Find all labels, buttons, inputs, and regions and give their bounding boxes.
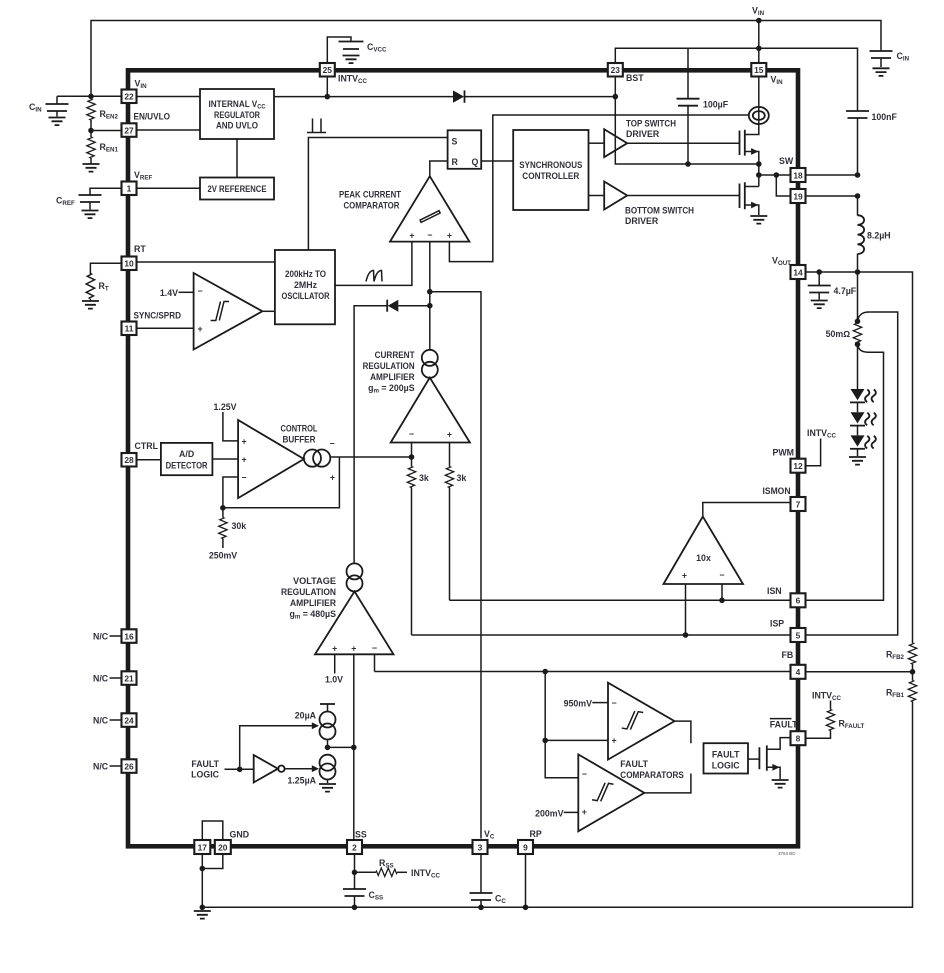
svg-text:OSCILLATOR: OSCILLATOR <box>282 291 331 301</box>
sense loop <box>749 107 769 124</box>
node 100uF rail <box>685 161 691 167</box>
svg-text:SS: SS <box>355 830 367 840</box>
resistor REN1 <box>90 131 92 138</box>
resistor RFB2 <box>908 643 916 664</box>
svg-text:12: 12 <box>793 461 803 471</box>
svg-text:−: − <box>409 429 414 439</box>
svg-text:1.25µA: 1.25µA <box>287 776 316 786</box>
current source VRA output <box>347 563 363 579</box>
current source 1.25uA <box>320 755 336 771</box>
capacitor 100uF <box>687 48 689 98</box>
inductor 8.2uH <box>857 196 859 216</box>
svg-text:200mV: 200mV <box>535 809 563 819</box>
ground LED string <box>849 457 866 465</box>
svg-text:+: + <box>242 436 247 446</box>
pin 5 ISP <box>791 628 806 642</box>
pin 28 CTRL <box>122 453 137 467</box>
node sense top <box>855 319 861 325</box>
svg-text:+: + <box>582 807 587 817</box>
block A/D detector <box>161 443 213 475</box>
node SW rail <box>756 161 762 167</box>
svg-text:N/C: N/C <box>93 674 109 684</box>
svg-text:−: − <box>582 769 587 779</box>
wire VRA plus / SS <box>353 654 355 840</box>
svg-text:6: 6 <box>796 596 801 606</box>
wire 20uA to SS <box>328 740 354 748</box>
svg-text:8.2µH: 8.2µH <box>867 231 891 241</box>
svg-text:1.25V: 1.25V <box>214 402 237 412</box>
svg-text:100nF: 100nF <box>872 112 898 122</box>
svg-text:ISMON: ISMON <box>763 486 791 496</box>
svg-text:+: + <box>242 454 247 464</box>
pin 15 VIN <box>751 63 766 77</box>
svg-text:24: 24 <box>124 716 134 726</box>
node REN1 top <box>88 128 94 134</box>
svg-text:ISP: ISP <box>770 619 784 629</box>
wire ISMON to 10x <box>703 503 791 517</box>
svg-text:CONTROLLER: CONTROLLER <box>522 171 580 181</box>
node diode branch <box>427 303 433 309</box>
pin 14 VOUT <box>791 265 806 279</box>
pin 21 N/C <box>122 671 137 685</box>
wire controller to top driver <box>589 142 605 144</box>
svg-text:AND UVLO: AND UVLO <box>216 121 258 131</box>
ground CREF <box>82 211 99 219</box>
svg-text:10x: 10x <box>696 553 711 563</box>
pin 10 RT <box>122 257 137 271</box>
svg-text:SW: SW <box>779 156 794 166</box>
svg-text:TOP SWITCH: TOP SWITCH <box>626 119 676 129</box>
svg-text:10: 10 <box>124 259 134 269</box>
svg-text:CTRL: CTRL <box>135 441 159 451</box>
amplifier 10x <box>664 517 744 585</box>
wire comparator to oscillator <box>262 310 275 312</box>
comparator peak current <box>390 176 469 241</box>
svg-text:2: 2 <box>352 842 357 852</box>
svg-text:AMPLIFIER: AMPLIFIER <box>370 372 415 382</box>
LED D3 <box>850 435 865 448</box>
svg-text:−: − <box>330 438 335 448</box>
svg-text:FAULT: FAULT <box>620 759 648 769</box>
ground CIN left <box>49 118 66 126</box>
pin 4 FB <box>791 665 806 679</box>
pin 9 RP <box>518 840 533 854</box>
wire VRA 1.0V input <box>334 654 336 673</box>
diode D-clamp <box>398 305 430 307</box>
svg-text:2V REFERENCE: 2V REFERENCE <box>208 184 267 194</box>
capacitor CSS <box>343 889 366 896</box>
wire sense to LEDs <box>857 344 859 389</box>
svg-text:DRIVER: DRIVER <box>626 129 660 139</box>
transistor M1 top switch <box>740 130 745 156</box>
pin 19 SW <box>791 189 806 203</box>
block internal VCC regulator U-REG <box>200 89 274 139</box>
node BST rail / VIN <box>756 46 762 52</box>
svg-text:REGULATION: REGULATION <box>281 587 336 597</box>
resistor 3k left <box>411 457 413 467</box>
svg-text:16: 16 <box>124 632 134 642</box>
svg-text:7: 7 <box>796 499 801 509</box>
pulse symbol <box>307 119 326 133</box>
svg-text:R: R <box>452 157 459 167</box>
comparator 950mV <box>608 683 675 760</box>
svg-text:EN/UVLO: EN/UVLO <box>134 112 171 122</box>
wire BST upper rail <box>615 48 857 111</box>
pin 26 N/C <box>122 759 137 773</box>
svg-text:11: 11 <box>125 324 134 334</box>
wire FB to fault comparators <box>542 669 548 675</box>
pin 24 N/C <box>122 713 137 727</box>
wire FB external <box>806 671 913 673</box>
block fault logic <box>704 743 749 773</box>
svg-text:18: 18 <box>793 170 803 180</box>
wire SW node <box>758 164 760 187</box>
ground bottom switch source <box>750 216 767 224</box>
wire pin22 to regulator <box>137 96 201 98</box>
svg-text:9: 9 <box>523 842 528 852</box>
pin 3 VC <box>473 840 488 854</box>
svg-text:28: 28 <box>124 455 134 465</box>
svg-text:250mV: 250mV <box>209 551 237 561</box>
svg-text:15: 15 <box>754 65 764 75</box>
wire 10x minus to ISN <box>721 584 723 600</box>
wire bottom driver to gate <box>627 195 739 197</box>
svg-text:−: − <box>242 472 247 482</box>
svg-text:REGULATION: REGULATION <box>363 361 415 371</box>
svg-text:950mV: 950mV <box>564 699 592 709</box>
svg-text:19: 19 <box>793 191 803 201</box>
svg-text:14: 14 <box>793 267 803 277</box>
svg-text:FAULT: FAULT <box>770 719 798 729</box>
svg-text:4.7µF: 4.7µF <box>834 286 857 296</box>
svg-text:+: + <box>330 473 335 483</box>
wire GND loop <box>202 821 223 840</box>
wire fault logic to inverter <box>225 768 254 770</box>
amplifier control buffer <box>238 420 304 498</box>
svg-text:2MHz: 2MHz <box>294 280 318 290</box>
wire buffer output <box>330 456 411 458</box>
svg-text:LOGIC: LOGIC <box>712 761 741 771</box>
pin 23 BST <box>608 63 623 77</box>
wire pin28 to A/D <box>137 459 161 461</box>
svg-text:ISN: ISN <box>767 586 782 596</box>
pin 27 EN/UVLO <box>122 123 137 137</box>
svg-text:+: + <box>332 644 337 654</box>
wire buffer feedback loop <box>223 457 340 508</box>
ground fault transistor <box>772 780 789 788</box>
wire SW pins to inductor <box>806 175 858 196</box>
wire VC rail <box>430 292 481 839</box>
ground GND pin <box>194 911 211 919</box>
inverter U-INV <box>254 755 278 782</box>
svg-text:RT: RT <box>134 244 146 254</box>
svg-text:3k: 3k <box>419 473 429 483</box>
svg-text:GND: GND <box>230 830 250 840</box>
svg-text:+: + <box>409 231 414 241</box>
svg-text:N/C: N/C <box>93 632 109 642</box>
capacitor CREF <box>90 188 122 194</box>
svg-text:−: − <box>612 698 617 708</box>
svg-text:27: 27 <box>124 126 134 136</box>
resistor 30k <box>222 508 224 518</box>
pin 18 SW <box>791 168 806 182</box>
svg-text:+: + <box>447 429 452 439</box>
svg-text:+: + <box>682 571 687 581</box>
svg-text:−: − <box>719 570 724 580</box>
svg-text:30k: 30k <box>232 521 247 531</box>
svg-text:Q: Q <box>472 157 479 167</box>
svg-text:FAULT: FAULT <box>191 759 219 769</box>
wire controller to bottom driver <box>589 195 605 197</box>
wire CRA plus input <box>449 443 451 467</box>
wire inductor to sense resistor <box>857 272 859 321</box>
svg-text:RP: RP <box>530 829 542 839</box>
block oscillator <box>275 250 335 324</box>
top switch driver <box>604 129 627 157</box>
svg-text:1: 1 <box>127 184 132 194</box>
svg-text:−: − <box>372 643 377 653</box>
svg-text:+: + <box>198 324 203 334</box>
node SW pin18 <box>756 172 762 178</box>
wire VRA minus to FB <box>374 654 376 671</box>
wire 10x plus to ISP <box>685 584 687 635</box>
svg-text:VOLTAGE: VOLTAGE <box>293 576 336 586</box>
svg-text:1.4V: 1.4V <box>160 288 178 298</box>
wire ISN sense <box>806 344 884 600</box>
node INTVCC/diode <box>325 94 331 100</box>
wire ISN rail <box>450 599 791 601</box>
wire GND down <box>201 854 203 906</box>
comparator 200mV <box>578 754 644 831</box>
ground 4.7uF <box>811 301 828 309</box>
wire pin1 to 2V reference <box>137 187 201 189</box>
wire ISP rail <box>412 634 791 636</box>
resistor REN2 <box>90 96 92 99</box>
svg-text:+: + <box>612 736 617 746</box>
wire fault logic to gate <box>748 758 759 760</box>
capacitor CIN (top right) <box>870 51 893 58</box>
wire inverter to 1.25uA <box>285 768 312 770</box>
svg-text:3: 3 <box>478 842 483 852</box>
wire oscillator ramp to peak comparator <box>335 242 412 286</box>
capacitor 4.7uF <box>818 272 820 285</box>
svg-text:COMPARATOR: COMPARATOR <box>344 201 401 211</box>
svg-text:S: S <box>452 137 458 147</box>
ground RT <box>82 301 99 309</box>
pin 6 ISN <box>791 593 806 607</box>
wire CRA minus input <box>411 443 413 458</box>
amplifier current regulation <box>391 378 470 443</box>
svg-text:CURRENT: CURRENT <box>375 350 416 360</box>
svg-text:SYNC/SPRD: SYNC/SPRD <box>134 311 182 321</box>
svg-text:21: 21 <box>124 674 134 684</box>
wire SS external <box>354 854 356 889</box>
wire 200mV output <box>644 774 691 793</box>
resistor RFB1 <box>912 672 914 681</box>
current source CRA output <box>422 350 438 366</box>
svg-text:200kHz TO: 200kHz TO <box>285 269 326 279</box>
wire ISP sense <box>806 312 898 635</box>
LED D2 <box>850 412 865 425</box>
pin 2 SS <box>347 840 362 854</box>
svg-text:22: 22 <box>124 92 134 102</box>
wire VC external <box>480 854 482 893</box>
svg-text:+: + <box>447 231 452 241</box>
ground REN1 <box>83 164 100 172</box>
current source 20uA <box>320 703 335 705</box>
wire latch Q to controller <box>481 160 513 162</box>
svg-text:23: 23 <box>611 65 621 75</box>
svg-text:8: 8 <box>796 734 801 744</box>
svg-text:BUFFER: BUFFER <box>283 435 317 445</box>
wire PWM INTVCC <box>806 439 821 466</box>
wire A/D to buffer <box>212 458 238 460</box>
resistor RT <box>90 263 121 274</box>
pin 17 GND <box>194 840 210 854</box>
svg-text:DETECTOR: DETECTOR <box>166 461 209 471</box>
svg-text:50mΩ: 50mΩ <box>826 329 851 339</box>
svg-text:FAULT: FAULT <box>712 750 740 760</box>
svg-text:4: 4 <box>796 667 801 677</box>
buffer output mirror <box>304 450 321 467</box>
svg-text:SYNCHRONOUS: SYNCHRONOUS <box>519 160 582 170</box>
capacitor 100nF <box>846 111 869 118</box>
wire VIN vertical to pin 15 <box>758 21 760 64</box>
pin 20 GND <box>215 840 231 854</box>
capacitor CC <box>470 893 493 900</box>
wire regulator to 2V reference <box>236 139 238 178</box>
wire to 20uA enable <box>240 726 312 770</box>
capacitor CIN (left) <box>56 96 58 103</box>
svg-text:+: + <box>351 644 356 654</box>
pin 1 VREF <box>122 182 137 196</box>
wire oscillator to latch S input <box>308 138 447 251</box>
pin 7 ISMON <box>791 497 806 511</box>
node REN2 top <box>88 94 94 100</box>
wire top driver to gate <box>627 142 739 144</box>
wire RP external <box>525 854 527 907</box>
svg-text:20µA: 20µA <box>295 711 317 721</box>
wire VIN pin to drain <box>758 77 760 125</box>
LED D1 <box>850 389 865 402</box>
wire CIN to pin 22 <box>57 95 122 97</box>
pin 22 VIN <box>122 90 137 104</box>
wire pin11 to comparator <box>137 327 194 329</box>
svg-text:FB: FB <box>782 650 794 660</box>
ground 1.25uA source <box>319 784 336 792</box>
svg-text:REGULATOR: REGULATOR <box>214 110 261 120</box>
latch U-SR <box>448 130 482 169</box>
svg-text:LOGIC: LOGIC <box>191 769 220 779</box>
block 2V reference <box>200 178 274 200</box>
node pin19 tap <box>774 172 780 178</box>
svg-text:100µF: 100µF <box>703 100 729 110</box>
svg-text:CONTROL: CONTROL <box>281 424 319 434</box>
node sense bottom <box>855 342 861 348</box>
svg-text:3763 BD: 3763 BD <box>778 851 796 856</box>
wire pin27 to regulator <box>137 129 201 131</box>
diode D-boost <box>453 90 464 102</box>
wire VIN top rail <box>91 21 881 97</box>
svg-text:AMPLIFIER: AMPLIFIER <box>290 598 337 608</box>
wire peak comparator minus input <box>429 242 431 350</box>
capacitor CVCC <box>327 37 351 63</box>
svg-text:20: 20 <box>218 842 228 852</box>
transistor M3 fault <box>759 745 766 770</box>
amplifier voltage regulation <box>315 591 394 654</box>
svg-text:17: 17 <box>198 842 208 852</box>
node VIN top <box>756 18 762 24</box>
pin 16 N/C <box>122 629 137 643</box>
svg-text:DRIVER: DRIVER <box>625 216 659 226</box>
resistor 3k right <box>445 467 453 488</box>
wire BST pin to bootstrap rail <box>615 77 759 165</box>
svg-text:26: 26 <box>124 762 134 772</box>
block synchronous controller <box>513 130 588 210</box>
pin 8 FAULT <box>791 731 806 745</box>
svg-text:BST: BST <box>626 73 644 83</box>
wire peak comparator sense line <box>449 115 748 262</box>
svg-text:N/C: N/C <box>93 762 109 772</box>
ground CIN top right <box>873 68 890 76</box>
svg-text:PEAK CURRENT: PEAK CURRENT <box>339 190 402 200</box>
svg-text:−: − <box>427 230 432 240</box>
wire EN/UVLO <box>91 130 122 132</box>
svg-text:BOTTOM SWITCH: BOTTOM SWITCH <box>625 206 694 216</box>
svg-text:5: 5 <box>796 630 801 640</box>
pin 11 SYNC/SPRD <box>122 322 137 336</box>
resistor RSS <box>355 871 377 873</box>
wire 950mV output <box>675 721 691 743</box>
pin 25 INTVCC <box>320 63 335 77</box>
comparator SYNC <box>194 273 263 350</box>
wire comparator to latch R input <box>430 161 448 176</box>
node BST vertical <box>613 94 619 100</box>
wire pin25 stub <box>326 77 328 97</box>
sawtooth symbol <box>366 271 382 282</box>
resistor 50mohm <box>853 322 861 343</box>
svg-text:COMPARATORS: COMPARATORS <box>620 770 684 780</box>
wire regulator output to BST <box>274 96 615 98</box>
wire VOUT <box>806 272 913 643</box>
wire pin10 to oscillator <box>137 261 275 263</box>
svg-text:−: − <box>198 286 203 296</box>
IC outline (LT3763) <box>128 70 798 846</box>
svg-text:A/D: A/D <box>179 449 194 459</box>
svg-text:1.0V: 1.0V <box>325 675 343 685</box>
svg-text:3k: 3k <box>457 473 467 483</box>
svg-text:PWM: PWM <box>773 448 795 458</box>
svg-text:N/C: N/C <box>93 716 109 726</box>
pin 12 PWM <box>791 459 806 473</box>
ground CVCC <box>343 56 360 64</box>
node VC branch <box>427 289 433 295</box>
bottom switch driver <box>604 182 627 210</box>
transistor M2 bottom switch <box>740 182 745 209</box>
wire FB rail <box>375 671 791 673</box>
svg-text:25: 25 <box>323 65 333 75</box>
